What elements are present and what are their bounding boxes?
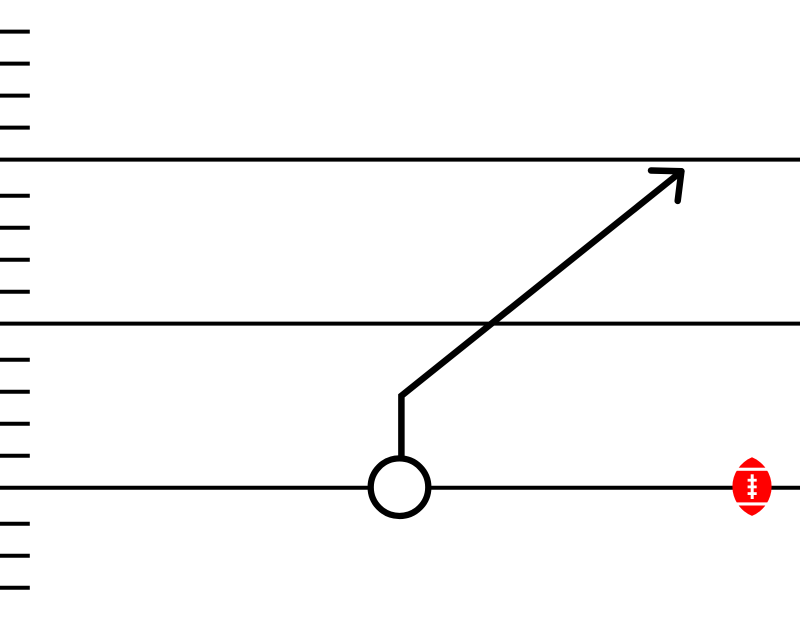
arrowhead barb lower xyxy=(678,171,682,201)
hash mark H1 xyxy=(0,30,30,34)
football white band lower xyxy=(730,502,774,505)
hash mark H2 xyxy=(0,62,30,66)
football lace vertical stripe xyxy=(751,474,754,499)
football lace bar 1 xyxy=(748,479,757,482)
hash mark H7 xyxy=(0,258,30,262)
football white band upper xyxy=(730,468,774,471)
hash mark H3 xyxy=(0,94,30,98)
hash mark H13 xyxy=(0,522,30,526)
hash mark H9 xyxy=(0,358,30,362)
hash mark H11 xyxy=(0,422,30,426)
route path (stem + slant shaft) xyxy=(401,171,681,470)
yard line L1 xyxy=(0,158,800,162)
yard line L3 (line of scrimmage) xyxy=(0,486,800,490)
hash mark H8 xyxy=(0,290,30,294)
hash mark H14 xyxy=(0,554,30,558)
hash mark H15 xyxy=(0,586,30,590)
hash mark H5 xyxy=(0,194,30,198)
football icon body (red lens) xyxy=(732,457,771,516)
football lace bar 3 xyxy=(748,492,757,495)
arrowhead barb upper xyxy=(651,167,681,174)
hash mark H10 xyxy=(0,390,30,394)
yard line L2 xyxy=(0,322,800,326)
hash mark H12 xyxy=(0,454,30,458)
football lace bar 2 xyxy=(748,486,757,489)
player circle O1 xyxy=(371,458,429,516)
hash mark H6 xyxy=(0,226,30,230)
hash mark H4 xyxy=(0,126,30,130)
